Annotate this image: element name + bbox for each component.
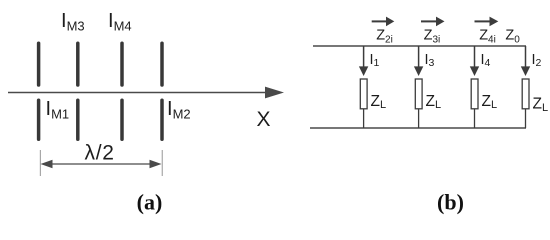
svg-text:Z0: Z0 xyxy=(505,28,520,46)
svg-text:I2: I2 xyxy=(532,52,542,69)
svg-text:ZL: ZL xyxy=(426,93,442,111)
svg-text:I4: I4 xyxy=(481,52,491,69)
antenna element 1 upper arm xyxy=(37,43,41,85)
svg-text:IM3: IM3 xyxy=(61,10,85,34)
wire branch 2 upper xyxy=(418,46,420,70)
top bus wire xyxy=(313,45,526,47)
current arrow I1 xyxy=(359,66,368,76)
svg-text:IM1: IM1 xyxy=(46,98,70,122)
bottom bus wire xyxy=(310,127,526,129)
svg-text:X: X xyxy=(256,108,270,131)
antenna element 3 upper arm xyxy=(120,43,124,85)
svg-text:I3: I3 xyxy=(425,52,435,69)
extension line left xyxy=(39,150,41,176)
svg-text:IM2: IM2 xyxy=(167,98,191,122)
wire branch 3 lower xyxy=(474,109,476,128)
svg-text:(b): (b) xyxy=(437,190,464,215)
wire branch 1 upper xyxy=(363,46,365,70)
arrow Z3i xyxy=(421,17,445,27)
antenna element 2 lower arm xyxy=(76,100,80,139)
svg-text:Z3i: Z3i xyxy=(424,28,441,46)
antenna element 4 upper arm xyxy=(160,43,164,85)
svg-text:Z4i: Z4i xyxy=(479,28,496,46)
svg-text:ZL: ZL xyxy=(533,96,549,114)
dimension arrow lambda/2 xyxy=(41,160,162,168)
current arrow I2 xyxy=(521,66,530,76)
wire branch 4 lower xyxy=(525,109,527,128)
extension line right xyxy=(161,150,163,176)
antenna element 2 upper arm xyxy=(76,43,80,85)
impedance ZL box 3 xyxy=(471,79,478,109)
impedance ZL box 4 xyxy=(522,79,529,109)
svg-text:λ/2: λ/2 xyxy=(85,142,114,165)
wire branch 1 lower xyxy=(363,109,365,128)
svg-text:Z2i: Z2i xyxy=(376,28,393,46)
svg-text:IM4: IM4 xyxy=(108,10,132,34)
current arrow I4 xyxy=(470,66,479,76)
svg-text:I1: I1 xyxy=(370,52,380,69)
antenna element 3 lower arm xyxy=(120,100,124,139)
wire branch 2 lower xyxy=(418,109,420,128)
arrow Z4i xyxy=(475,17,499,27)
antenna element 1 lower arm xyxy=(37,100,41,139)
x-axis arrow xyxy=(8,87,284,99)
antenna element 4 lower arm xyxy=(160,100,164,139)
svg-text:(a): (a) xyxy=(137,190,163,215)
svg-text:ZL: ZL xyxy=(482,93,498,111)
arrow Z2i xyxy=(372,17,395,27)
wire branch 4 upper xyxy=(525,46,527,70)
current arrow I3 xyxy=(414,66,423,76)
impedance ZL box 1 xyxy=(360,79,367,109)
svg-text:ZL: ZL xyxy=(371,93,387,111)
impedance ZL box 2 xyxy=(415,79,422,109)
wire branch 3 upper xyxy=(474,46,476,70)
